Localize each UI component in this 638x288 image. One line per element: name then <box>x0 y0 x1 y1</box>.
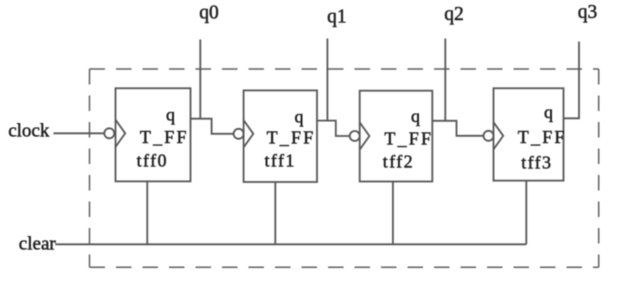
svg-text:tff3: tff3 <box>521 152 552 172</box>
svg-text:T_FF: T_FF <box>140 127 189 147</box>
tff0 clock bubble <box>104 128 114 138</box>
svg-text:T_FF: T_FF <box>518 127 567 147</box>
svg-text:q: q <box>411 106 420 126</box>
svg-text:tff1: tff1 <box>265 151 296 171</box>
wire tff1 clear <box>274 182 276 244</box>
wire node q0 <box>199 40 201 119</box>
svg-text:q: q <box>166 104 175 124</box>
svg-text:q: q <box>295 106 304 126</box>
wire tff0.q to tff1 clock <box>191 119 234 134</box>
wire tff3 clear <box>525 181 527 245</box>
tff1 clock chevron <box>244 120 254 147</box>
svg-text:q0: q0 <box>199 2 219 23</box>
tff0 clock chevron <box>116 120 126 147</box>
wire tff2.q to tff3 clock <box>432 121 483 136</box>
svg-text:T_FF: T_FF <box>267 127 316 147</box>
tff2 clock bubble <box>350 131 360 141</box>
tff3 clock bubble <box>484 131 494 141</box>
flip-flop tff3 body <box>494 88 564 180</box>
svg-text:tff2: tff2 <box>383 152 414 172</box>
wire clock input <box>53 132 104 134</box>
tff3 clock chevron <box>494 122 504 149</box>
svg-text:clear: clear <box>19 234 57 255</box>
wire tff0 clear <box>146 181 148 244</box>
dashed module boundary box <box>90 69 599 267</box>
wire tff3.q to node q3 <box>564 42 580 119</box>
flip-flop tff1 body <box>244 90 317 182</box>
svg-text:T_FF: T_FF <box>384 129 433 149</box>
svg-text:q: q <box>544 102 553 122</box>
flip-flop tff0 body <box>116 88 191 181</box>
svg-text:tff0: tff0 <box>137 151 168 171</box>
svg-text:q2: q2 <box>444 4 464 25</box>
svg-text:q1: q1 <box>327 7 347 28</box>
wire node q1 <box>326 39 328 121</box>
wire tff1.q to tff2 clock <box>317 121 350 136</box>
svg-text:clock: clock <box>8 120 50 141</box>
tff2 clock chevron <box>360 122 370 149</box>
wire clear net <box>55 243 526 245</box>
svg-text:q3: q3 <box>578 2 598 23</box>
wire tff2 clear <box>392 182 394 245</box>
tff1 clock bubble <box>234 129 244 139</box>
flip-flop tff2 body <box>360 91 433 182</box>
wire node q2 <box>444 39 446 121</box>
